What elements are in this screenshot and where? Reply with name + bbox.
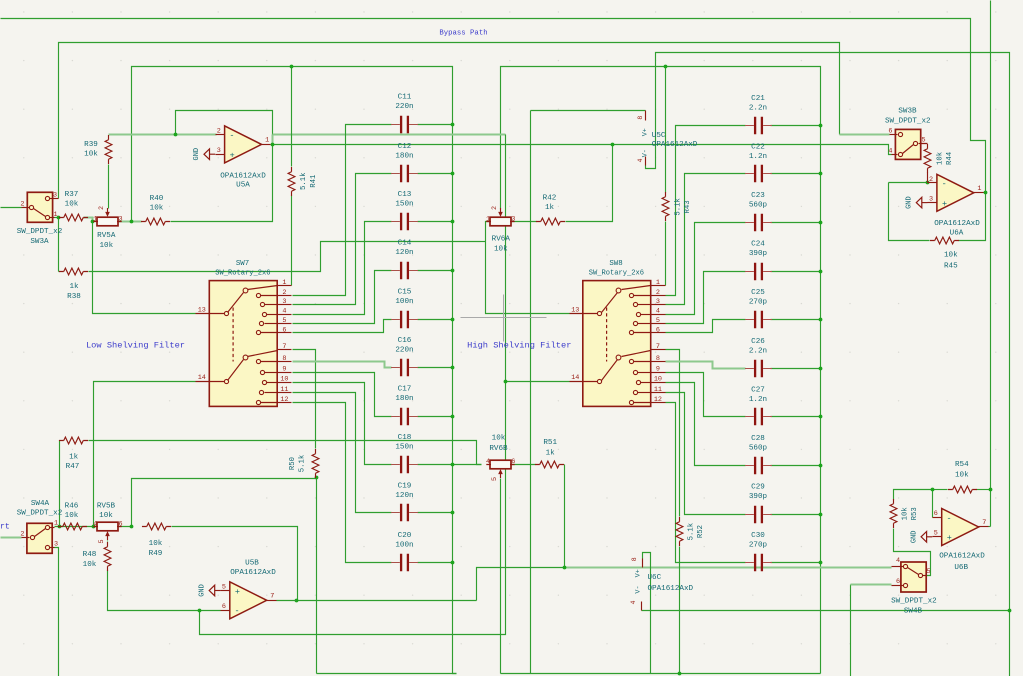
svg-text:390p: 390p: [749, 250, 768, 258]
svg-text:5: 5: [656, 317, 660, 325]
svg-text:12: 12: [280, 396, 288, 404]
wire SW7 pin5 to C14: [293, 271, 392, 324]
svg-text:C29: C29: [751, 484, 765, 492]
wire R40 feedback to U5A out: [171, 145, 273, 222]
ground: [922, 202, 928, 204]
resistor R50 5.1k: [312, 454, 319, 474]
svg-text:SW_DPDT_x2: SW_DPDT_x2: [891, 598, 937, 606]
svg-text:10k: 10k: [99, 512, 113, 520]
svg-text:14: 14: [571, 374, 579, 382]
svg-text:-: -: [942, 179, 947, 189]
resistor R53 10k: [890, 504, 897, 524]
svg-text:C22: C22: [751, 143, 765, 151]
svg-text:2: 2: [217, 127, 221, 135]
svg-text:10k: 10k: [902, 507, 910, 521]
svg-text:4: 4: [888, 147, 892, 155]
svg-text:5: 5: [921, 137, 925, 145]
svg-text:R46: R46: [65, 503, 79, 511]
svg-text:C24: C24: [751, 241, 765, 249]
svg-text:R37: R37: [65, 191, 79, 199]
svg-text:1: 1: [265, 137, 269, 145]
svg-text:10k: 10k: [83, 561, 97, 569]
svg-text:OPA1612AxD: OPA1612AxD: [939, 552, 985, 560]
svg-text:RV5B: RV5B: [97, 503, 116, 511]
svg-text:5.1k: 5.1k: [675, 198, 683, 216]
wire SW3A pin1 to R37: [55, 217, 59, 219]
svg-text:R49: R49: [149, 550, 163, 558]
wire U6C V- rail: [642, 610, 1010, 612]
svg-text:180n: 180n: [395, 395, 413, 403]
svg-text:-: -: [946, 513, 951, 523]
wire RV6B pin6 to R51: [511, 464, 536, 466]
wire node R41/capbusA y=67 left: [132, 67, 457, 674]
svg-text:RV6B: RV6B: [489, 445, 508, 453]
switch SW4A SW_DPDT_x2: [27, 523, 52, 553]
svg-text:V-: V-: [641, 149, 649, 157]
wire SW7 pin8 to C16 (highlighted): [293, 362, 392, 368]
wire R54 left to R53: [894, 490, 933, 500]
resistor R52 5.1k: [676, 522, 683, 542]
svg-text:rt: rt: [0, 523, 10, 532]
svg-text:OPA1612AxD: OPA1612AxD: [652, 141, 698, 149]
svg-text:C11: C11: [398, 94, 412, 102]
wire R47 left column: [59, 441, 61, 527]
capacitor C22: [755, 165, 762, 182]
svg-text:OPA1612AxD: OPA1612AxD: [934, 220, 980, 228]
svg-text:10k: 10k: [937, 151, 945, 165]
wire bottom bus left segment: [317, 673, 457, 675]
junction dots capacitor bus B: [819, 124, 823, 128]
svg-text:10k: 10k: [65, 512, 79, 520]
resistor R40 10k: [146, 218, 166, 225]
wire SW7 pin10 to C18: [293, 383, 392, 465]
capacitor C26: [755, 360, 762, 377]
wire U6A out: [984, 192, 986, 194]
svg-text:13: 13: [571, 307, 579, 315]
capacitor C15: [401, 311, 408, 328]
wire SW8 pin10 to C28: [666, 383, 746, 466]
capacitor C11: [401, 116, 408, 133]
svg-text:Low Shelving Filter: Low Shelving Filter: [86, 341, 185, 351]
resistor R49 10k: [147, 523, 167, 530]
svg-text:1: 1: [486, 215, 490, 223]
wire R50 bottom node: [316, 478, 318, 674]
svg-text:High Shelving Filter: High Shelving Filter: [467, 341, 571, 351]
svg-text:SW_DPDT_x2: SW_DPDT_x2: [17, 509, 63, 517]
svg-text:C14: C14: [398, 240, 412, 248]
ground: [210, 153, 216, 155]
wire R44 node to U6A pin2: [889, 182, 928, 184]
svg-text:SW7: SW7: [236, 260, 249, 268]
capacitor C24: [755, 263, 762, 280]
wire U5B out net to SW4B pin4: [477, 568, 565, 601]
capacitor C14: [401, 262, 408, 279]
wire U5C V- jog to top rail: [646, 53, 1010, 676]
svg-text:7: 7: [270, 593, 274, 601]
svg-text:C12: C12: [398, 143, 412, 151]
svg-text:SW_DPDT_x2: SW_DPDT_x2: [885, 117, 931, 125]
svg-text:6: 6: [896, 578, 900, 586]
svg-text:R51: R51: [543, 439, 557, 447]
svg-text:8: 8: [282, 355, 286, 363]
svg-text:3: 3: [511, 215, 515, 223]
svg-text:C17: C17: [398, 386, 412, 394]
resistor R54 10k: [953, 486, 973, 493]
wire R45 to U6A out: [959, 193, 986, 241]
resistor R44 10k: [924, 149, 931, 169]
svg-text:GND: GND: [198, 584, 206, 597]
switch SW7 SW_Rotary_2x6: [209, 281, 277, 407]
wire SW8 pin9 to C27: [666, 373, 746, 417]
wire SW8 pin1 / R43 column: [665, 67, 667, 193]
svg-text:U6A: U6A: [950, 230, 964, 238]
wire R51 right to U5B out net: [564, 465, 566, 568]
svg-text:120n: 120n: [395, 249, 413, 257]
svg-text:5: 5: [282, 317, 286, 325]
svg-text:220n: 220n: [395, 103, 413, 111]
resistor R42 1k: [541, 218, 561, 225]
wire RV5B wiper to R48: [107, 541, 109, 542]
svg-text:SW4A: SW4A: [31, 500, 50, 508]
switch SW3B SW_DPDT_x2: [895, 129, 920, 159]
svg-text:3: 3: [53, 192, 57, 200]
wire R42 to U5A out net: [566, 145, 613, 222]
svg-text:U5C: U5C: [652, 132, 666, 140]
svg-text:12: 12: [654, 396, 662, 404]
svg-text:11: 11: [280, 386, 288, 394]
svg-text:100n: 100n: [395, 298, 413, 306]
svg-text:150n: 150n: [395, 443, 413, 451]
svg-text:1k: 1k: [69, 283, 79, 291]
wire SW4A R46 RV5B row: [55, 526, 93, 528]
svg-text:390p: 390p: [749, 493, 768, 501]
svg-text:OPA1612AxD: OPA1612AxD: [220, 172, 266, 180]
svg-text:C15: C15: [398, 289, 412, 297]
svg-text:180n: 180n: [395, 152, 413, 160]
svg-text:220n: 220n: [395, 347, 413, 355]
svg-text:+: +: [942, 199, 947, 209]
capacitor C29: [755, 506, 762, 523]
svg-text:R43: R43: [684, 200, 692, 213]
cursor crosshair: [461, 295, 547, 342]
capacitor C18: [401, 456, 408, 473]
svg-text:6: 6: [282, 326, 286, 334]
svg-text:5.1k: 5.1k: [299, 454, 307, 472]
wire R37 to RV5A pin1: [84, 218, 94, 222]
svg-text:10k: 10k: [492, 434, 506, 442]
svg-text:9: 9: [282, 365, 286, 373]
wire highlighted net U5A out to RV6A/SW8 column: [273, 134, 506, 136]
svg-text:Bypass Path: Bypass Path: [439, 30, 487, 38]
wire U5B out to R47/RV6B corner: [297, 600, 477, 602]
op-amp U5B OPA1612AxD: [230, 582, 267, 619]
resistor R41 5.1k: [288, 172, 295, 192]
capacitor C21: [755, 117, 762, 134]
svg-text:GND: GND: [910, 530, 918, 543]
svg-text:SW3A: SW3A: [30, 238, 49, 246]
op-amp U5A OPA1612AxD: [225, 126, 262, 163]
svg-text:+: +: [235, 587, 240, 597]
svg-text:R53: R53: [911, 507, 919, 520]
svg-text:1.2n: 1.2n: [749, 396, 767, 404]
wire SW4B pin6 column: [850, 585, 852, 676]
junction dots capacitor bus A: [451, 123, 455, 127]
capacitor C25: [755, 311, 762, 328]
svg-text:270p: 270p: [749, 542, 768, 550]
svg-text:3: 3: [282, 298, 286, 306]
wire U5A output net y=144: [273, 145, 892, 155]
svg-text:R38: R38: [67, 293, 81, 301]
svg-text:14: 14: [198, 374, 206, 382]
svg-text:1.2n: 1.2n: [749, 153, 767, 161]
svg-text:560p: 560p: [749, 202, 768, 210]
svg-text:5: 5: [98, 539, 106, 543]
wire RV6A pin1 column down to SW8 pin13: [486, 242, 570, 314]
wire R38 net / staircase to RV6A pin1: [59, 271, 60, 273]
svg-text:6: 6: [222, 603, 226, 611]
svg-text:5.1k: 5.1k: [688, 522, 696, 540]
svg-text:1k: 1k: [546, 449, 556, 457]
svg-text:2.2n: 2.2n: [749, 104, 767, 112]
svg-text:C13: C13: [398, 191, 412, 199]
wire R47 to RV6B pin4: [89, 441, 482, 465]
svg-text:1: 1: [53, 211, 57, 219]
svg-text:2: 2: [929, 176, 933, 184]
svg-text:C20: C20: [398, 532, 412, 540]
svg-text:6: 6: [888, 127, 892, 135]
svg-text:R44: R44: [946, 151, 954, 165]
wire SW3A pin2 input: [1, 207, 22, 209]
svg-text:10k: 10k: [494, 245, 508, 253]
svg-text:SW8: SW8: [609, 260, 622, 268]
svg-text:120n: 120n: [395, 492, 413, 500]
svg-text:SW3B: SW3B: [898, 107, 917, 115]
wire column x505 down to U5B pin6 net: [200, 135, 506, 635]
capacitor C20: [401, 554, 408, 571]
svg-text:1k: 1k: [545, 204, 555, 212]
svg-text:4: 4: [656, 308, 660, 316]
svg-text:U6B: U6B: [954, 564, 968, 572]
svg-text:5: 5: [926, 568, 930, 576]
svg-text:10k: 10k: [944, 252, 958, 260]
svg-text:5.1k: 5.1k: [300, 172, 308, 190]
svg-text:3: 3: [217, 147, 221, 155]
wire pin14 left column down to RV5B: [94, 382, 196, 527]
svg-text:R40: R40: [150, 195, 164, 203]
wire SW7 pin6 to C15: [293, 320, 392, 333]
svg-text:3: 3: [118, 215, 122, 223]
resistor R46 10k: [63, 523, 83, 530]
capacitor C19: [401, 504, 408, 521]
svg-text:U5B: U5B: [245, 559, 259, 567]
resistor R43 5.1k: [662, 197, 669, 217]
svg-text:C25: C25: [751, 289, 765, 297]
op-amp U6B OPA1612AxD: [942, 509, 979, 546]
wire x530 column V+/RV6B pin6: [530, 111, 532, 674]
svg-text:100n: 100n: [395, 541, 413, 549]
svg-text:270p: 270p: [749, 299, 768, 307]
svg-text:R48: R48: [83, 551, 97, 559]
svg-text:10k: 10k: [150, 204, 164, 212]
svg-text:1: 1: [282, 279, 286, 287]
wire R53 bottom to SW4B pin5: [894, 529, 931, 576]
wire SW4A pin2 input: [1, 537, 22, 539]
wire RV5B pin6 to R50 net: [118, 479, 317, 527]
wire C18 to RV6B pin4: [418, 464, 482, 466]
svg-text:+: +: [230, 151, 235, 161]
svg-text:2.2n: 2.2n: [749, 347, 767, 355]
svg-text:C18: C18: [398, 434, 412, 442]
svg-text:V+: V+: [634, 569, 642, 577]
svg-text:7: 7: [656, 343, 660, 351]
svg-text:R41: R41: [310, 174, 318, 188]
potentiometer RV6A 10k: [490, 217, 511, 226]
wire R54 ends: [933, 489, 948, 491]
svg-text:R42: R42: [543, 195, 557, 203]
svg-text:13: 13: [198, 307, 206, 315]
wire R53/R54 node to U6B pin6: [932, 490, 934, 518]
svg-text:-: -: [235, 606, 240, 616]
wire SW8 pin3 to C22: [666, 174, 746, 305]
wire SW8 pin4 to C23: [666, 223, 746, 315]
capacitor C28: [755, 457, 762, 474]
svg-text:9: 9: [656, 365, 660, 373]
wire RV5A pin3 to R40: [118, 221, 132, 223]
resistor R39 10k: [105, 140, 112, 160]
svg-text:10k: 10k: [84, 151, 98, 159]
wire RV5A pin1 down to SW7 pin13: [93, 222, 196, 314]
op-amp U5C power pins V+ 8 V- 4: [645, 111, 647, 121]
svg-text:8: 8: [637, 116, 644, 120]
ground: [215, 590, 221, 592]
svg-text:C27: C27: [751, 386, 765, 394]
svg-text:2: 2: [282, 289, 286, 297]
svg-text:5: 5: [934, 530, 938, 538]
svg-text:560p: 560p: [749, 445, 768, 453]
capacitor C30: [755, 554, 762, 571]
wire SW7 pin11 to C19: [293, 393, 392, 513]
svg-text:C30: C30: [751, 532, 765, 540]
svg-text:3: 3: [929, 195, 933, 203]
resistor R51 1k: [540, 461, 560, 468]
svg-text:OPA1612AxD: OPA1612AxD: [648, 585, 694, 593]
svg-text:4: 4: [486, 458, 490, 466]
svg-text:4: 4: [637, 158, 644, 162]
svg-text:11: 11: [654, 386, 662, 394]
wire SW4B pin6 (highlighted): [851, 584, 892, 586]
svg-text:4: 4: [630, 600, 637, 604]
potentiometer RV5B 10k: [97, 522, 118, 531]
svg-text:8: 8: [631, 557, 638, 561]
switch SW4B SW_DPDT_x2: [901, 562, 926, 592]
svg-text:SW_Rotary_2x6: SW_Rotary_2x6: [589, 269, 644, 277]
resistor R45 10k: [935, 237, 955, 244]
svg-text:C19: C19: [398, 482, 412, 490]
wire bottom bus right segment: [501, 673, 821, 675]
svg-text:1: 1: [656, 279, 660, 287]
svg-text:R50: R50: [289, 457, 297, 470]
svg-text:U5A: U5A: [236, 181, 250, 189]
svg-text:1: 1: [54, 520, 58, 528]
svg-text:6: 6: [511, 458, 515, 466]
svg-text:C23: C23: [751, 192, 765, 200]
svg-text:10: 10: [654, 376, 662, 384]
wire highlighted net R39-U5A pin2: [109, 134, 217, 136]
svg-text:10k: 10k: [99, 242, 113, 250]
wire SW7 pin7 to R50: [293, 350, 316, 449]
wire SW8 pin5 to C24: [666, 272, 746, 324]
svg-text:R39: R39: [84, 141, 98, 149]
svg-text:R47: R47: [66, 463, 80, 471]
svg-text:4: 4: [896, 557, 900, 565]
capacitor C16: [401, 359, 408, 376]
svg-text:10k: 10k: [149, 540, 163, 548]
switch SW3A SW_DPDT_x2: [27, 192, 52, 222]
op-amp U6C power pins V+ 8 V- 4: [642, 559, 644, 568]
svg-text:6: 6: [934, 510, 938, 518]
svg-text:C28: C28: [751, 435, 765, 443]
svg-text:150n: 150n: [395, 201, 413, 209]
svg-text:SW_DPDT_x2: SW_DPDT_x2: [17, 228, 63, 236]
wire RV6A pin1 connection: [486, 222, 491, 242]
svg-text:R54: R54: [955, 461, 969, 469]
wire SW8 pin8 to C26: [666, 362, 746, 369]
svg-text:C26: C26: [751, 338, 765, 346]
svg-text:6: 6: [656, 326, 660, 334]
svg-text:5: 5: [491, 477, 499, 481]
svg-text:10k: 10k: [65, 201, 79, 209]
svg-text:RV5A: RV5A: [97, 232, 116, 240]
svg-text:2: 2: [20, 200, 24, 208]
wire node R43/capbusB y=67 right: [501, 67, 821, 674]
wire R39 bottom to RV5A wiper: [108, 165, 110, 209]
svg-text:1: 1: [93, 215, 97, 223]
wire RV6A pin3 to R42: [511, 221, 537, 223]
switch SW8 SW_Rotary_2x6: [583, 281, 651, 407]
wire SW8 pin14 from highlighted column: [506, 381, 570, 383]
svg-text:GND: GND: [906, 196, 914, 209]
wire U6B out column: [990, 1, 992, 527]
svg-text:1k: 1k: [69, 454, 79, 462]
wire SW8 pin6 to C25: [666, 320, 746, 333]
svg-text:3: 3: [54, 541, 58, 549]
wire top rail y=18 to U6A output: [1, 19, 986, 193]
svg-text:C21: C21: [751, 95, 765, 103]
wire bypass path SW3A pin3 to SW3B pin6: [59, 43, 840, 199]
svg-text:V+: V+: [641, 128, 649, 136]
resistor R48 10k: [104, 547, 111, 567]
svg-text:7: 7: [282, 343, 286, 351]
svg-text:R52: R52: [697, 525, 705, 538]
svg-text:2: 2: [98, 206, 106, 210]
wire R41 column SW7 pin1: [291, 67, 293, 167]
junction dots: [57, 216, 61, 220]
svg-text:OPA1612AxD: OPA1612AxD: [230, 569, 276, 577]
wire U5B out net highlighted segment to SW4B pin4: [565, 567, 892, 569]
wire SW8 pin2 to C21: [666, 126, 746, 296]
svg-text:2: 2: [656, 289, 660, 297]
wire U6C V+ jog: [643, 553, 651, 674]
wire RV6B wiper column: [500, 479, 502, 674]
wire SW7 pin12 to C20: [293, 403, 392, 563]
capacitor C13: [401, 213, 408, 230]
potentiometer RV5A 10k: [97, 217, 118, 226]
svg-text:R45: R45: [944, 263, 958, 271]
wire U6B out to feedback: [989, 526, 991, 528]
wire SW7 pin3 to C12: [293, 174, 392, 305]
svg-text:8: 8: [656, 355, 660, 363]
svg-text:RV6A: RV6A: [492, 235, 511, 243]
